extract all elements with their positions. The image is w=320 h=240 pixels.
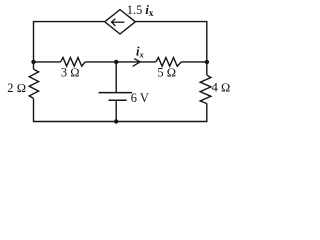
wire battery lower vertical bbox=[115, 100, 117, 121]
svg-text:5 Ω: 5 Ω bbox=[157, 66, 176, 80]
resistor 5 ohm zigzag bbox=[156, 58, 181, 67]
svg-text:6 V: 6 V bbox=[131, 91, 149, 105]
resistor 3 ohm zigzag bbox=[61, 58, 86, 67]
wire right vertical stub above 4-ohm bbox=[206, 62, 208, 75]
wire left vertical stub above 2-ohm bbox=[33, 62, 35, 69]
resistor 2 ohm zigzag bbox=[29, 69, 38, 98]
voltage source 6V battery bottom plate bbox=[109, 99, 127, 101]
wire middle right segment bbox=[181, 61, 207, 63]
current arrow i_x on middle wire bbox=[133, 59, 141, 67]
wire top-left horizontal bbox=[34, 21, 105, 23]
dependent source arrow head bbox=[112, 19, 116, 26]
wire bottom horizontal bbox=[34, 121, 207, 123]
wire left vertical upper bbox=[33, 21, 35, 62]
dependent current source 1.5ix diamond bbox=[105, 10, 136, 34]
svg-text:1.5 ix: 1.5 ix bbox=[127, 3, 154, 18]
node junction right middle bbox=[205, 60, 209, 64]
wire middle left segment bbox=[34, 61, 61, 63]
node junction battery bottom bbox=[114, 119, 118, 123]
wire right vertical upper bbox=[206, 21, 208, 62]
svg-text:2 Ω: 2 Ω bbox=[7, 81, 26, 95]
node junction left middle bbox=[31, 60, 35, 64]
node junction battery top bbox=[114, 60, 118, 64]
svg-text:3 Ω: 3 Ω bbox=[61, 65, 80, 79]
wire battery upper vertical bbox=[115, 62, 117, 93]
wire middle center segment bbox=[85, 61, 156, 63]
wire left vertical lower bbox=[33, 98, 35, 122]
dependent source arrow shaft bbox=[112, 21, 125, 23]
wire right vertical lower bbox=[206, 104, 208, 123]
voltage source 6V battery top plate bbox=[99, 92, 133, 94]
svg-text:ix: ix bbox=[136, 45, 144, 60]
svg-text:4 Ω: 4 Ω bbox=[212, 81, 231, 95]
wire top-right horizontal bbox=[135, 21, 207, 23]
resistor 4 ohm zigzag bbox=[200, 75, 211, 103]
